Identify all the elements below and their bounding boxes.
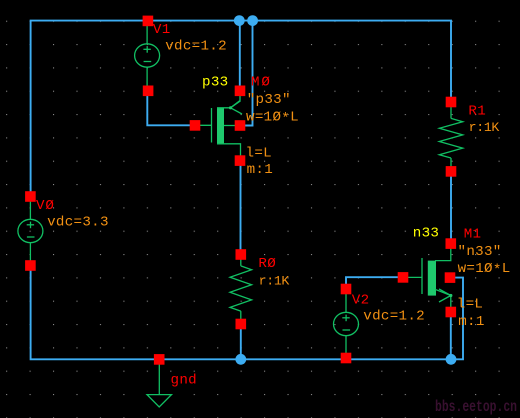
- wire: M0 drain drop from top rail: [239, 21, 241, 91]
- wire: M0 bulk drop from top rail: [242, 21, 253, 126]
- svg-text:MØ: MØ: [251, 74, 272, 90]
- pin R0 top: [236, 249, 247, 260]
- pin M0 bulk: [235, 120, 246, 131]
- pin M1 gate: [398, 272, 409, 283]
- pin V0 minus: [25, 260, 36, 271]
- svg-text:vdc=1.2: vdc=1.2: [363, 309, 425, 325]
- wire: left rail + top rail + right drop to R1: [31, 21, 451, 197]
- pin squares (red): [25, 16, 456, 365]
- svg-text:V1: V1: [153, 22, 171, 38]
- svg-text:m:1: m:1: [458, 314, 484, 330]
- pin V1 minus: [143, 86, 154, 97]
- pin V1 plus: [143, 16, 154, 27]
- svg-text:r:1K: r:1K: [259, 273, 290, 288]
- pin V2 minus: [341, 353, 352, 364]
- pin R0 bottom: [236, 319, 247, 330]
- svg-text:w=1Ø*L: w=1Ø*L: [246, 110, 299, 128]
- svg-text:M1: M1: [464, 226, 482, 242]
- wire: V2 to M1 gate: [346, 277, 403, 289]
- pin V0 plus: [25, 191, 36, 202]
- svg-text:"p33": "p33": [247, 92, 291, 108]
- voltage source V1: [135, 24, 160, 88]
- pin R1 bottom: [446, 166, 457, 177]
- junction dot top left: [234, 15, 245, 26]
- svg-text:vdc=3.3: vdc=3.3: [47, 215, 109, 231]
- svg-text:gnd: gnd: [171, 372, 197, 388]
- pin R1 top: [446, 97, 457, 108]
- wire: M0 source to R0: [240, 161, 242, 255]
- svg-text:l=L: l=L: [246, 145, 272, 161]
- resistor R0: [230, 259, 252, 319]
- pin M0 drain bottom: [235, 155, 246, 166]
- junction dot bottom right: [446, 354, 457, 365]
- svg-text:V2: V2: [352, 293, 370, 309]
- voltage source V2: [334, 293, 359, 357]
- resistor R1: [439, 107, 462, 167]
- svg-text:RØ: RØ: [258, 256, 276, 272]
- wire: M1 source to bottom rail: [450, 312, 452, 359]
- wire: M1 bulk to bottom rail: [450, 278, 463, 360]
- voltage source V0: [18, 200, 43, 264]
- wire: R0 to bottom rail: [240, 324, 242, 359]
- svg-text:R1: R1: [468, 103, 486, 119]
- svg-text:VØ: VØ: [36, 198, 55, 214]
- pin V2 plus: [341, 284, 352, 295]
- junction dot top right: [247, 15, 258, 26]
- svg-text:bbs.eetop.cn: bbs.eetop.cn: [435, 398, 517, 416]
- pmos transistor M0: [195, 95, 242, 161]
- wire: R1 to M1 drain: [450, 171, 452, 243]
- pin M0 gate: [190, 120, 201, 131]
- svg-text:w=1Ø*L: w=1Ø*L: [458, 261, 511, 279]
- svg-text:vdc=1.2: vdc=1.2: [165, 39, 227, 55]
- pin gnd: [154, 354, 165, 365]
- nmos transistor M1: [403, 244, 452, 312]
- wire: left rail lower + bottom rail: [31, 265, 451, 359]
- svg-text:n33: n33: [413, 226, 439, 242]
- junction dot bottom R0: [235, 354, 246, 365]
- svg-text:m:1: m:1: [247, 162, 273, 178]
- pin M1 drain top: [446, 238, 457, 249]
- svg-text:p33: p33: [202, 75, 228, 91]
- svg-text:l=L: l=L: [457, 297, 483, 313]
- wire: V1 to M0 gate: [147, 91, 195, 126]
- pin M1 source bottom: [446, 307, 457, 318]
- pin M1 bulk: [445, 272, 456, 283]
- svg-text:"n33": "n33": [458, 244, 502, 260]
- svg-text:r:1K: r:1K: [469, 120, 500, 135]
- pin M0 source top: [235, 86, 246, 97]
- ground symbol gnd: [147, 359, 172, 407]
